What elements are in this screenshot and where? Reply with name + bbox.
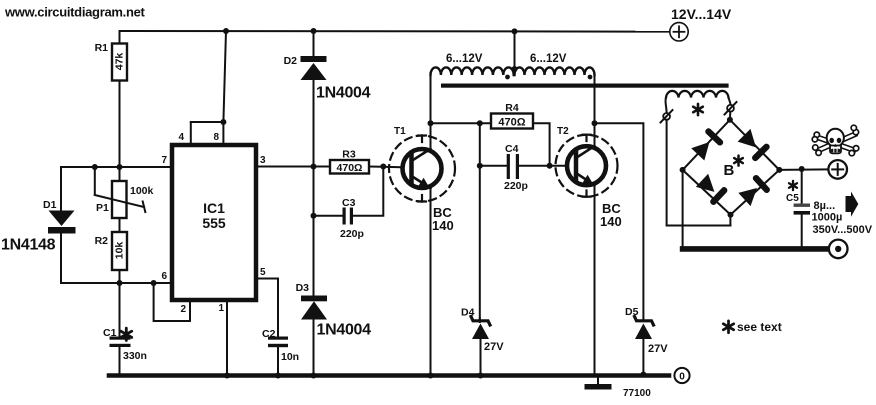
- wire top supply rail: [120, 30, 670, 33]
- terminal +12V supply: [670, 6, 732, 41]
- node junction T1 collector: [428, 120, 434, 126]
- svg-text:220p: 220p: [340, 228, 364, 240]
- wire pin7 horizontal: [61, 166, 172, 168]
- svg-text:R2: R2: [95, 235, 109, 247]
- node junction pin2 bracket: [151, 280, 157, 286]
- wire C4 left: [480, 165, 507, 167]
- wire R1 to P1: [119, 81, 121, 182]
- site watermark text: [4, 5, 146, 20]
- wire T1 emitter to ground rail: [430, 188, 432, 375]
- svg-text:47k: 47k: [114, 53, 126, 71]
- diode D4 zener 27V: [461, 307, 504, 354]
- svg-text:C1: C1: [103, 327, 117, 339]
- node junction C5 top: [799, 166, 805, 172]
- svg-text:IC1: IC1: [203, 200, 225, 216]
- wire secondary left to bridge bottom: [667, 120, 731, 226]
- svg-text:C4: C4: [505, 143, 519, 155]
- svg-text:6...12V: 6...12V: [530, 53, 567, 65]
- node junction T1 emitter rail: [428, 373, 434, 379]
- bridge diode top-right: [736, 128, 771, 163]
- op-amp IC1 555 timer: [172, 145, 256, 300]
- pin 6 label: [161, 271, 167, 282]
- pin 7 label: [161, 155, 167, 166]
- wire C3 right up to base node: [353, 167, 383, 216]
- svg-text:D4: D4: [461, 307, 475, 319]
- node junction C3 left: [311, 213, 317, 219]
- svg-text:7: 7: [161, 155, 167, 166]
- svg-text:T1: T1: [394, 126, 406, 137]
- node junction D4 ground rail: [478, 373, 484, 379]
- wire D1 branch vertical: [60, 167, 62, 283]
- pin 4: [178, 122, 190, 145]
- wire R1 top riser: [119, 31, 121, 44]
- wire pin6 horizontal: [61, 282, 172, 284]
- transformer primary right winding: [515, 53, 595, 79]
- terminal 0 output: [674, 368, 689, 383]
- node junction D5 ground rail: [640, 372, 646, 378]
- svg-text:P1: P1: [96, 202, 109, 214]
- arrow marker high voltage: [846, 192, 859, 217]
- wire C2 to ground rail: [277, 347, 279, 376]
- note see text: [723, 321, 733, 333]
- svg-text:C5: C5: [786, 193, 799, 204]
- svg-text:1: 1: [218, 303, 224, 314]
- transformer primary left winding: [431, 53, 514, 123]
- svg-text:D3: D3: [296, 282, 310, 294]
- wire bridge bottom stub: [729, 215, 731, 226]
- wire C4 right: [519, 165, 550, 167]
- transistor T1 BC140: [389, 126, 455, 233]
- resistor R1: [95, 42, 127, 81]
- wire D2 branch: [313, 31, 315, 167]
- node junction C4 right T2 base: [547, 163, 553, 169]
- wire P1 wiper: [95, 167, 146, 212]
- svg-text:27V: 27V: [648, 343, 668, 355]
- ground symbol: [585, 377, 612, 390]
- svg-text:D5: D5: [625, 306, 639, 318]
- svg-text:470Ω: 470Ω: [337, 162, 363, 174]
- wire P1 to R2: [119, 218, 121, 232]
- node junction pin3 D2 D3: [311, 164, 317, 170]
- svg-text:140: 140: [432, 218, 454, 233]
- node junction D2 top rail: [311, 28, 317, 34]
- node junction R3 C3 T1 base: [380, 164, 386, 170]
- diode D3: [296, 282, 372, 339]
- wire C5 branch: [801, 169, 803, 247]
- node junction R4 left D4 branch: [477, 120, 483, 126]
- svg-text:R3: R3: [342, 149, 356, 161]
- capacitor C1: [103, 327, 147, 362]
- svg-text:1N4004: 1N4004: [316, 85, 371, 102]
- svg-text:B: B: [724, 162, 735, 179]
- svg-text:C2: C2: [262, 328, 276, 340]
- wire T1 collector riser: [430, 123, 432, 149]
- pin 3: [256, 155, 330, 167]
- node junction R2/C1/pin6: [117, 280, 123, 286]
- svg-text:10k: 10k: [114, 242, 126, 260]
- node junction T2 collector: [592, 120, 598, 126]
- svg-text:4: 4: [178, 132, 184, 143]
- node junction wiper/pin7: [92, 164, 98, 170]
- svg-text:6: 6: [161, 271, 167, 282]
- capacitor C3: [340, 197, 364, 240]
- pin 8: [213, 122, 223, 145]
- wire secondary right to bridge top: [729, 112, 731, 120]
- svg-text:330n: 330n: [123, 350, 147, 362]
- wire C1 to ground rail: [119, 347, 121, 376]
- node junction D3 ground rail: [311, 373, 317, 379]
- node junction C2 ground rail: [275, 373, 281, 379]
- wire R3 to T1 base: [369, 167, 412, 168]
- svg-text:10n: 10n: [281, 351, 299, 363]
- svg-text:R4: R4: [505, 102, 519, 114]
- svg-text:1000µ: 1000µ: [812, 212, 843, 224]
- transistor T2 BC140: [556, 126, 622, 229]
- wire R4 to T2 base: [533, 123, 550, 165]
- diode D1: [1, 199, 76, 254]
- wire center tap: [512, 28, 518, 72]
- diode D2: [284, 55, 371, 102]
- node junction C4 left: [477, 163, 483, 169]
- node junction pin1 ground rail: [224, 373, 230, 379]
- svg-text:2: 2: [180, 304, 186, 315]
- potentiometer P1: [96, 181, 154, 218]
- terminal + high voltage output: [828, 160, 847, 179]
- resistor R3: [330, 149, 369, 174]
- wire bridge right to + output: [779, 168, 828, 171]
- wire T1 collector to R4: [431, 122, 492, 124]
- pin 1: [218, 300, 227, 376]
- svg-text:350V...500V: 350V...500V: [813, 224, 873, 236]
- pin 5: [256, 267, 278, 337]
- capacitor C2: [262, 328, 299, 363]
- bridge diode bottom-left: [694, 172, 728, 206]
- wire D4 branch vertical: [479, 123, 482, 375]
- svg-text:5: 5: [260, 267, 266, 278]
- svg-text:12V...14V: 12V...14V: [671, 6, 732, 22]
- wire D3 branch: [313, 167, 315, 376]
- secondary tap terminal right: [725, 102, 737, 115]
- svg-text:27V: 27V: [484, 341, 504, 353]
- svg-text:3: 3: [260, 155, 266, 166]
- wire T2 emitter to ground rail: [594, 185, 596, 375]
- wire bottom ground rail: [109, 373, 669, 378]
- label 77100: [623, 388, 651, 399]
- wire bridge left to output rail: [682, 170, 684, 247]
- svg-text:0: 0: [679, 372, 685, 383]
- transformer core: [441, 84, 729, 88]
- node junction R1/P1/pin7: [117, 164, 123, 170]
- bridge diode top-left: [690, 127, 725, 162]
- svg-text:220p: 220p: [504, 180, 528, 192]
- svg-text:see text: see text: [737, 320, 782, 334]
- svg-text:C3: C3: [342, 197, 356, 209]
- bridge diode bottom-right: [737, 174, 771, 208]
- svg-text:T2: T2: [557, 126, 569, 137]
- svg-text:77100: 77100: [623, 388, 651, 399]
- wire output bottom rail: [683, 246, 838, 252]
- svg-text:140: 140: [600, 214, 622, 229]
- wire primary right riser: [594, 75, 596, 124]
- wire C3 left: [314, 215, 343, 217]
- svg-text:R1: R1: [95, 42, 109, 54]
- svg-text:D2: D2: [284, 55, 298, 67]
- svg-text:1N4004: 1N4004: [317, 322, 372, 339]
- node junction top rail pin8: [223, 28, 229, 34]
- svg-text:D1: D1: [43, 199, 57, 211]
- pin 2: [154, 283, 190, 321]
- diode D5 zener 27V: [625, 306, 668, 376]
- terminal output return: [829, 240, 848, 259]
- resistor R4: [491, 102, 533, 129]
- capacitor C5: [786, 181, 873, 236]
- transformer secondary winding: [665, 91, 730, 115]
- wire T2 collector riser: [594, 123, 596, 146]
- svg-text:470Ω: 470Ω: [498, 117, 525, 129]
- svg-text:8: 8: [213, 132, 219, 143]
- svg-text:www.circuitdiagram.net: www.circuitdiagram.net: [4, 5, 146, 20]
- svg-text:555: 555: [202, 215, 226, 231]
- wire T2 base: [550, 165, 576, 167]
- wire pin4 pin8 bracket: [191, 121, 224, 123]
- wire pin6 node to C1: [119, 283, 121, 337]
- node junction pin8 riser: [220, 119, 226, 125]
- wire T2 collector to D5 branch: [595, 123, 644, 320]
- wire pin8 to top rail: [223, 31, 226, 122]
- svg-text:100k: 100k: [130, 185, 154, 197]
- svg-text:8µ...: 8µ...: [814, 200, 836, 212]
- capacitor C4: [504, 143, 528, 192]
- resistor R2: [95, 232, 127, 270]
- secondary tap terminal left: [661, 110, 673, 123]
- bridge rectifier B: [680, 117, 783, 218]
- skull danger symbol: [812, 125, 859, 156]
- svg-text:6...12V: 6...12V: [446, 53, 483, 65]
- svg-text:1N4148: 1N4148: [1, 237, 56, 254]
- wire R2 to pin6 line: [119, 270, 121, 283]
